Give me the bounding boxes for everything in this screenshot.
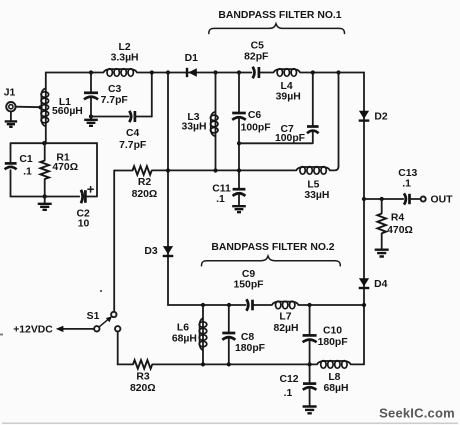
capacitor C12 .1 — [279, 364, 316, 399]
node bp1 rail / L3 — [213, 168, 217, 172]
svg-text:82µH: 82µH — [273, 323, 298, 334]
svg-text:R3: R3 — [136, 372, 150, 383]
inductor L7 82uH — [272, 301, 299, 334]
svg-text:33µH: 33µH — [304, 190, 329, 201]
wire bp1 bottom rail — [114, 166, 338, 170]
svg-text:10: 10 — [78, 219, 90, 230]
svg-text:D4: D4 — [374, 279, 388, 290]
node box top / R1 — [42, 141, 46, 145]
inductor L6 68uH — [172, 305, 207, 364]
ground below box — [38, 197, 52, 210]
node R4 top — [380, 197, 384, 201]
svg-text:D1: D1 — [185, 53, 199, 64]
node bottom rail / C8 — [227, 362, 231, 366]
ground below J1 — [5, 111, 17, 126]
brace under title no.2 — [202, 256, 341, 266]
resistor R1 470 ohm — [40, 143, 78, 196]
svg-text:S1: S1 — [87, 311, 100, 322]
+12VDC feed arrow — [13, 325, 94, 336]
svg-text:BANDPASS FILTER NO.2: BANDPASS FILTER NO.2 — [211, 242, 334, 253]
svg-text:3.3µH: 3.3µH — [111, 53, 139, 64]
diode D2 — [359, 111, 388, 123]
node box bottom / ground — [43, 194, 47, 198]
diode D4 — [359, 278, 388, 290]
edge mark — [0, 334, 3, 336]
wire top rail — [46, 72, 364, 74]
wire bp2 bottom rail — [118, 363, 364, 365]
svg-text:C5: C5 — [251, 41, 265, 52]
inductor L8 68uH — [317, 361, 351, 395]
svg-text:C4: C4 — [126, 128, 140, 139]
svg-text:470Ω: 470Ω — [387, 225, 413, 236]
capacitor C5 82pF — [244, 41, 268, 79]
node at L1 tap — [38, 105, 42, 109]
svg-text:820Ω: 820Ω — [132, 189, 158, 200]
wire L5 right riser to top rail — [338, 73, 340, 167]
resistor R3 820 ohm — [130, 360, 156, 394]
inductor L3 33uH — [181, 73, 218, 171]
resistor R2 820 ohm — [132, 166, 158, 200]
svg-text:470Ω: 470Ω — [52, 162, 78, 173]
svg-text:D3: D3 — [144, 246, 158, 257]
svg-text:68µH: 68µH — [323, 383, 348, 394]
svg-text:82pF: 82pF — [244, 52, 268, 63]
box enclosure C1 R1 C2 — [11, 143, 98, 196]
svg-text:C9: C9 — [242, 269, 256, 280]
svg-text:+12VDC: +12VDC — [13, 325, 53, 336]
node bottom rail / L6 — [201, 362, 205, 366]
node top rail / L5 riser — [336, 70, 340, 74]
capacitor C6 100pF — [232, 73, 270, 189]
svg-text:SeekIC.com: SeekIC.com — [379, 406, 455, 421]
svg-text:100pF: 100pF — [241, 123, 271, 134]
connector J1 — [4, 88, 16, 112]
node bottom rail / C10 C12 — [308, 362, 312, 366]
svg-text:L6: L6 — [177, 323, 189, 334]
capacitor C11 .1 — [212, 184, 245, 206]
svg-text:R4: R4 — [391, 213, 405, 224]
svg-text:L2: L2 — [119, 42, 131, 53]
svg-text:L4: L4 — [281, 81, 293, 92]
svg-text:C3: C3 — [108, 84, 122, 95]
ground below R4 — [375, 233, 389, 256]
wire S1 lower drop — [117, 332, 119, 365]
svg-text:C10: C10 — [323, 326, 342, 337]
svg-text:C12: C12 — [279, 374, 298, 385]
svg-text:33µH: 33µH — [181, 122, 206, 133]
inductor L5 33uH — [296, 167, 330, 201]
capacitor C7 100pF — [275, 124, 319, 144]
node bp2 rail / C8 C9 — [227, 303, 231, 307]
svg-text:180pF: 180pF — [235, 343, 265, 354]
svg-text:D2: D2 — [374, 112, 388, 123]
capacitor C1 .1 — [5, 154, 33, 178]
capacitor C4 7.7pF — [91, 111, 152, 151]
inductor L2 3.3uH — [103, 42, 138, 76]
svg-text:OUT: OUT — [431, 195, 454, 206]
svg-text:.1: .1 — [284, 388, 293, 399]
capacitor C2 10 — [77, 187, 94, 230]
svg-text:180pF: 180pF — [318, 337, 348, 348]
out terminal — [421, 195, 453, 206]
switch S1 — [87, 311, 121, 331]
node bp2 rail / D4 bus — [362, 303, 366, 307]
ground below C11 — [232, 195, 246, 212]
svg-text:BANDPASS FILTER NO.1: BANDPASS FILTER NO.1 — [218, 10, 341, 21]
node bp1 rail / D3 line — [166, 168, 170, 172]
capacitor C10 180pF — [303, 305, 348, 364]
capacitor C13 .1 — [398, 168, 417, 205]
svg-text:L7: L7 — [279, 312, 291, 323]
ground below C3 — [84, 117, 98, 126]
node top rail / C4 — [150, 70, 154, 74]
diode D3 — [144, 246, 173, 257]
wire J1 to L1 — [16, 106, 41, 109]
node top rail / C5 C6 — [237, 70, 241, 74]
svg-text:100pF: 100pF — [275, 133, 305, 144]
brace under title no.1 — [209, 24, 345, 34]
node top rail / C7 — [311, 70, 315, 74]
svg-text:.1: .1 — [216, 194, 225, 205]
node C3/C4 junction — [89, 114, 93, 118]
node out — [362, 197, 366, 201]
capacitor C8 180pF — [222, 305, 265, 364]
node bp1 rail / C11 — [237, 168, 241, 172]
svg-text:7.7pF: 7.7pF — [101, 95, 128, 106]
capacitor C9 150pF — [233, 269, 263, 311]
svg-text:J1: J1 — [4, 88, 16, 99]
capacitor C3 7.7pF — [84, 73, 128, 117]
node bp2 rail / C10 — [308, 303, 312, 307]
speck — [100, 290, 102, 292]
wire S1 upper riser — [113, 171, 115, 312]
title bandpass filter no.1 — [218, 10, 341, 21]
svg-text:.1: .1 — [402, 179, 411, 190]
node top rail / C3 — [89, 70, 93, 74]
wire C4 up to top rail — [151, 73, 153, 117]
svg-text:.1: .1 — [23, 167, 32, 178]
title bandpass filter no.2 — [211, 242, 334, 253]
svg-text:68µH: 68µH — [172, 334, 197, 345]
node bp2 rail / L6 — [201, 303, 205, 307]
svg-text:C6: C6 — [248, 110, 262, 121]
wire bp2 top rail — [168, 304, 364, 306]
wire D3 branch vertical — [167, 73, 169, 306]
svg-text:L8: L8 — [328, 372, 340, 383]
svg-text:150pF: 150pF — [233, 280, 263, 291]
ground below C12 — [303, 389, 317, 414]
svg-text:820Ω: 820Ω — [130, 383, 156, 394]
wire out line — [364, 198, 421, 200]
wire C6 bottom to C7 — [239, 73, 313, 144]
inductor L4 39uH — [274, 69, 301, 103]
svg-text:560µH: 560µH — [52, 106, 83, 117]
node top rail / L3 — [213, 70, 217, 74]
svg-text:C11: C11 — [212, 184, 231, 195]
diode D1 — [185, 53, 199, 77]
resistor R4 470 ohm — [377, 199, 412, 236]
node C6 bottom / C7 wire — [237, 141, 241, 145]
scan artifact line — [2, 422, 458, 424]
svg-text:39µH: 39µH — [276, 92, 301, 103]
node top rail / D3 branch — [166, 70, 170, 74]
wire top rail corner down right bus — [363, 73, 365, 365]
svg-text:C13: C13 — [398, 168, 417, 179]
svg-text:C8: C8 — [241, 332, 255, 343]
svg-text:C1: C1 — [19, 154, 33, 165]
inductor L1 560uH — [41, 73, 83, 144]
svg-text:7.7pF: 7.7pF — [119, 140, 146, 151]
svg-text:R2: R2 — [138, 177, 152, 188]
